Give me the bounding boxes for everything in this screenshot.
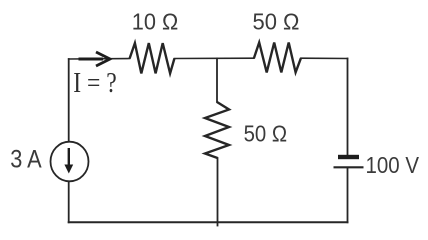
svg-text:50 Ω: 50 Ω [253,9,300,35]
svg-text:I = ?: I = ? [73,67,117,99]
svg-text:100 V: 100 V [366,152,420,178]
wire: left vertical upper (corner down to current source) [68,59,70,142]
wire: left vertical lower (current source to bottom corner) [68,181,70,222]
current source I1 3A (circle with downward arrow) [51,142,89,182]
wire: middle vertical upper (top node to 50-ohm resistor) [216,59,218,103]
wire: middle vertical lower (50-ohm resistor to bottom wire) [217,158,219,226]
wire: top-right segment to right corner [301,57,348,59]
wire: bottom horizontal [69,221,348,223]
battery V1 100V (thick short bar + thin long line) [334,155,364,168]
svg-text:50 Ω: 50 Ω [244,120,288,146]
resistor R1 10 ohm (top left, horizontal zigzag) [130,43,175,73]
resistor R3 50 ohm (middle, vertical zigzag) [205,102,229,158]
current direction arrow on top-left wire [79,52,111,66]
svg-text:3 A: 3 A [10,145,42,173]
wire: top-left segment from left corner to 10-ohm resistor [69,58,130,61]
wire: right vertical lower (battery to bottom corner) [347,168,349,222]
wire: top-middle segment between resistors [174,57,254,59]
svg-text:10 Ω: 10 Ω [132,9,179,35]
resistor R2 50 ohm (top right, horizontal zigzag) [254,43,301,73]
wire: right vertical upper (top corner to battery) [347,59,349,156]
